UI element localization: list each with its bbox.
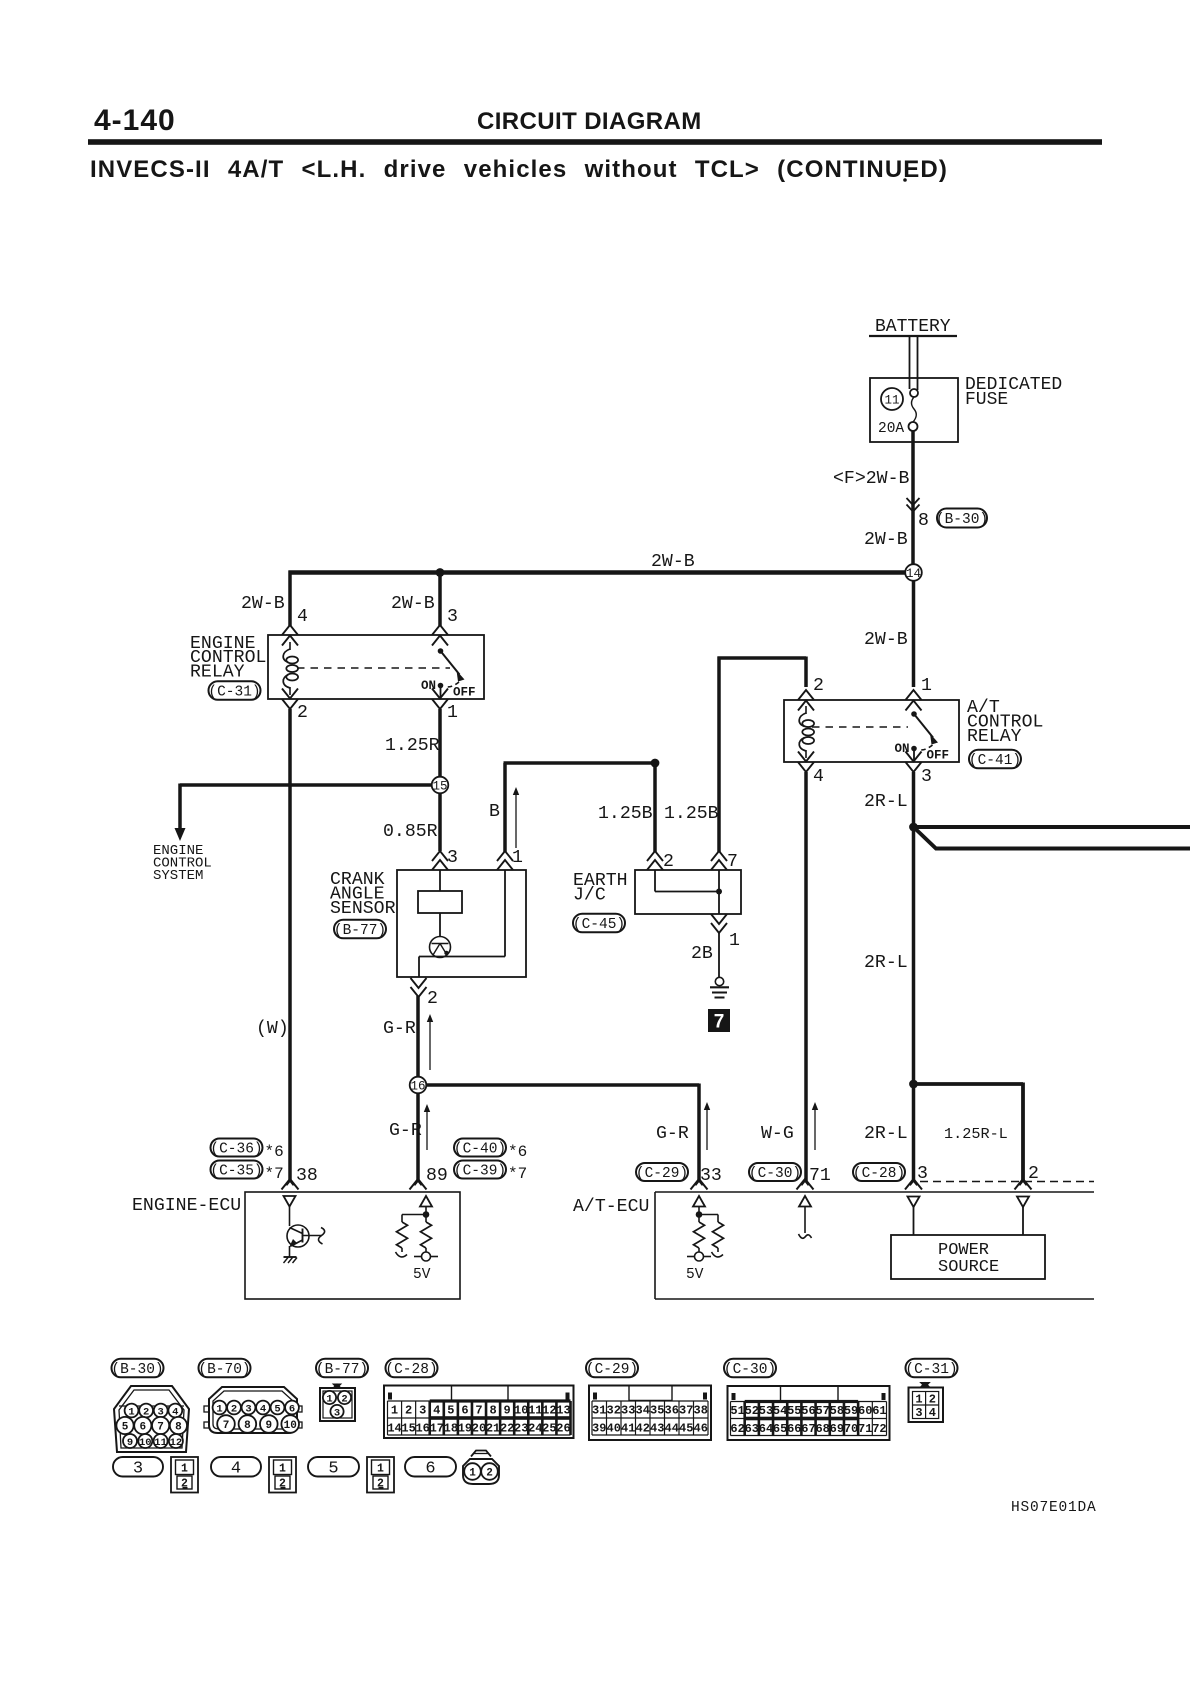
svg-text:6: 6 <box>425 1460 435 1479</box>
svg-text:1: 1 <box>729 931 740 951</box>
pill 4 <box>211 1457 261 1479</box>
svg-text:3: 3 <box>915 1406 922 1420</box>
svg-text:57: 57 <box>815 1404 829 1418</box>
svg-text:2W-B: 2W-B <box>241 594 285 614</box>
svg-text:2: 2 <box>231 1403 237 1415</box>
relay terminal pin2 bottom <box>282 689 298 710</box>
label (C-31) <box>208 681 260 700</box>
title INVECS-II <box>90 156 948 183</box>
wire 2R-L branch right top <box>911 825 1190 829</box>
relay terminal pin3 top <box>432 625 448 646</box>
svg-text:1: 1 <box>128 1406 134 1418</box>
label (C-45) <box>573 914 625 933</box>
label (C-40) *6 <box>454 1139 527 1162</box>
svg-text:7: 7 <box>157 1421 164 1433</box>
svg-text:44: 44 <box>665 1422 679 1436</box>
svg-text:1.25R-L: 1.25R-L <box>944 1125 1008 1143</box>
svg-text:2W-B: 2W-B <box>651 552 695 572</box>
wire pin1 to node 15 (1.25R) <box>438 709 442 778</box>
dashed line C-28 pins <box>920 1181 1094 1183</box>
label ENGINE CONTROL SYSTEM <box>153 843 212 884</box>
wire node16 down to pin 89 <box>416 1093 420 1182</box>
svg-text:1: 1 <box>469 1467 476 1479</box>
svg-text:RELAY: RELAY <box>967 727 1022 747</box>
ECU transistor Q <box>287 1225 325 1248</box>
svg-text:17: 17 <box>430 1422 444 1436</box>
earth JC terminal pin2 <box>647 851 663 870</box>
svg-text:(C-45): (C-45) <box>573 917 625 933</box>
svg-text:4-140: 4-140 <box>94 104 176 137</box>
svg-text:22: 22 <box>500 1422 514 1436</box>
wire node15 down (0.85R) <box>438 793 442 852</box>
svg-text:3: 3 <box>447 848 458 868</box>
engine control relay box <box>268 635 484 699</box>
svg-text:(B-70): (B-70) <box>198 1362 250 1378</box>
connector C-31 shell <box>909 1383 944 1423</box>
svg-text:3: 3 <box>334 1407 340 1419</box>
wire node14 down to A/T relay pin1 (2W-B) <box>912 580 916 687</box>
svg-text:2W-B: 2W-B <box>391 594 435 614</box>
svg-text:38: 38 <box>296 1166 318 1186</box>
arrow G-R at pin33 <box>704 1102 710 1150</box>
label (C-30) <box>749 1163 801 1182</box>
svg-text:(C-31): (C-31) <box>208 685 260 701</box>
ENGINE-ECU box <box>245 1192 460 1299</box>
svg-text:A/T-ECU: A/T-ECU <box>573 1197 649 1217</box>
wire node15 left to engine control system <box>180 783 433 787</box>
svg-text:2: 2 <box>486 1467 493 1479</box>
svg-text:6: 6 <box>289 1403 295 1415</box>
svg-text:64: 64 <box>759 1422 773 1436</box>
ECU pin38 triangle <box>284 1196 296 1207</box>
label (C-29) bottom <box>586 1359 638 1378</box>
svg-text:14: 14 <box>906 567 921 581</box>
svg-text:4: 4 <box>297 607 308 627</box>
label (C-35) *7 <box>210 1161 283 1184</box>
connector oval 1-2 <box>463 1451 499 1485</box>
svg-text:52: 52 <box>745 1404 759 1418</box>
svg-text:2: 2 <box>377 1478 384 1491</box>
label (B-30) bottom <box>111 1359 163 1378</box>
wire branch 1.25R-L <box>912 1083 1024 1182</box>
wire 1.25B pin7 vertical <box>717 657 721 853</box>
pill 5 <box>308 1457 359 1479</box>
svg-text:(C-35): (C-35) <box>210 1164 262 1180</box>
arrow G-R upper <box>427 1014 433 1070</box>
svg-text:7: 7 <box>727 852 738 872</box>
svg-text:89: 89 <box>426 1166 448 1186</box>
svg-text:9: 9 <box>265 1420 272 1432</box>
label (B-77) <box>334 920 386 939</box>
svg-text:1.25B: 1.25B <box>664 804 719 824</box>
label (C-28) <box>853 1163 905 1182</box>
wire bus drop left (2W-B) <box>288 571 292 627</box>
svg-text:65: 65 <box>773 1422 787 1436</box>
sensor terminal pin2 <box>411 978 427 997</box>
sensor inner wire pin3 to block <box>439 870 441 891</box>
svg-text:60: 60 <box>858 1404 872 1418</box>
connector B-77 shell <box>320 1384 355 1421</box>
A/T relay switch <box>911 711 938 761</box>
svg-text:14: 14 <box>387 1422 401 1436</box>
svg-text:RELAY: RELAY <box>190 663 245 683</box>
svg-text:15: 15 <box>401 1422 415 1436</box>
svg-text:5V: 5V <box>413 1267 431 1283</box>
svg-text:1: 1 <box>512 848 523 868</box>
svg-text:4: 4 <box>929 1406 936 1420</box>
svg-text:41: 41 <box>621 1422 635 1436</box>
A/T relay terminal pin4 <box>798 752 814 773</box>
ATECU pin33 triangle <box>693 1196 705 1207</box>
junction 2R-L to 1.25R-L <box>909 1080 918 1089</box>
svg-text:1: 1 <box>915 1393 922 1407</box>
svg-text:2R-L: 2R-L <box>864 792 908 812</box>
svg-text:4: 4 <box>260 1403 266 1415</box>
engine control relay coil <box>283 642 298 695</box>
ATECU pin3 triangle <box>908 1197 920 1208</box>
svg-text:2: 2 <box>297 703 308 723</box>
svg-text:32: 32 <box>607 1404 621 1418</box>
svg-text:4: 4 <box>433 1404 440 1418</box>
earth JC inner wires <box>655 870 719 914</box>
svg-text:24: 24 <box>528 1422 542 1436</box>
sensor inner block <box>418 891 462 913</box>
svg-text:10: 10 <box>139 1437 152 1449</box>
wire 2B to ground <box>718 932 720 977</box>
svg-text:(C-36): (C-36) <box>210 1142 262 1158</box>
svg-text:72: 72 <box>872 1422 886 1436</box>
svg-text:9: 9 <box>504 1404 511 1418</box>
ATECU terminal pin2 <box>1015 1179 1032 1190</box>
svg-text:CIRCUIT DIAGRAM: CIRCUIT DIAGRAM <box>477 108 702 135</box>
svg-text:2B: 2B <box>691 944 713 964</box>
svg-text:16: 16 <box>415 1422 429 1436</box>
svg-text:3: 3 <box>419 1404 426 1418</box>
svg-text:56: 56 <box>801 1404 815 1418</box>
node 14 <box>905 564 922 581</box>
svg-text:1.25B: 1.25B <box>598 804 653 824</box>
svg-text:3: 3 <box>447 607 458 627</box>
svg-text:61: 61 <box>872 1404 886 1418</box>
svg-text:*7: *7 <box>508 1165 527 1183</box>
svg-text:45: 45 <box>679 1422 693 1436</box>
svg-text:13: 13 <box>556 1404 570 1418</box>
svg-text:(B-77): (B-77) <box>316 1362 368 1378</box>
earth JC inner junction <box>716 889 722 895</box>
svg-text:12: 12 <box>170 1437 183 1449</box>
svg-text:69: 69 <box>830 1422 844 1436</box>
svg-text:SOURCE: SOURCE <box>938 1258 999 1277</box>
svg-text:HS07E01DA: HS07E01DA <box>1011 1500 1097 1516</box>
label (B-77) bottom <box>316 1359 368 1378</box>
svg-text:OFF: OFF <box>453 686 476 700</box>
svg-text:18: 18 <box>444 1422 458 1436</box>
svg-text:6: 6 <box>461 1404 468 1418</box>
arrow G-R lower <box>424 1104 430 1150</box>
svg-text:(C-39): (C-39) <box>454 1164 506 1180</box>
svg-text:46: 46 <box>694 1422 708 1436</box>
svg-text:11: 11 <box>528 1404 542 1418</box>
svg-text:1: 1 <box>921 676 932 696</box>
svg-text:(B-30): (B-30) <box>936 512 988 528</box>
ECU pin89 triangle <box>420 1196 432 1207</box>
svg-text:55: 55 <box>787 1404 801 1418</box>
ATECU pin33 net <box>696 1207 718 1223</box>
connector C-28 shell <box>384 1386 574 1439</box>
svg-text:16: 16 <box>410 1079 425 1093</box>
svg-text:G-R: G-R <box>383 1019 416 1039</box>
crank angle sensor box <box>397 870 526 977</box>
ECU pin89 net <box>402 1207 429 1223</box>
ATECU resistor left 5V <box>687 1222 711 1261</box>
junction on bus at x440 <box>436 568 445 577</box>
connector 1-2 b <box>269 1457 296 1493</box>
ground symbol <box>710 977 729 997</box>
svg-text:3: 3 <box>245 1403 251 1415</box>
ATECU terminal pin3 <box>905 1179 922 1190</box>
connector C-29 shell <box>589 1386 711 1441</box>
svg-text:(C-28): (C-28) <box>853 1166 905 1182</box>
svg-text:BATTERY: BATTERY <box>875 317 951 337</box>
svg-text:12: 12 <box>542 1404 556 1418</box>
ECU terminal pin89 <box>410 1179 427 1190</box>
header CIRCUIT DIAGRAM <box>477 108 702 135</box>
label A/T CONTROL RELAY <box>967 698 1043 747</box>
svg-text:26: 26 <box>556 1422 570 1436</box>
svg-text:(C-41): (C-41) <box>969 753 1021 769</box>
wire node16 right <box>426 1084 700 1182</box>
wire pin2 down (W) long <box>288 709 292 1181</box>
connector 1-2 a <box>171 1457 198 1493</box>
sensor pickup symbol <box>430 937 451 958</box>
earth JC terminal pin1 <box>711 914 727 933</box>
svg-text:2: 2 <box>405 1404 412 1418</box>
svg-text:7: 7 <box>714 1012 725 1033</box>
svg-text:FUSE: FUSE <box>965 390 1008 410</box>
svg-text:62: 62 <box>730 1422 744 1436</box>
svg-text:15: 15 <box>432 779 447 793</box>
svg-text:INVECS-II 4A/T <L.H. drive veh: INVECS-II 4A/T <L.H. drive vehicles with… <box>90 156 948 183</box>
svg-text:8: 8 <box>244 1420 251 1432</box>
sensor inner wire out <box>419 870 505 977</box>
svg-text:8: 8 <box>175 1421 182 1433</box>
svg-text:SYSTEM: SYSTEM <box>153 868 203 884</box>
svg-text:2R-L: 2R-L <box>864 1124 908 1144</box>
svg-text:71: 71 <box>858 1422 872 1436</box>
svg-text:1.25R: 1.25R <box>385 736 440 756</box>
svg-text:(C-29): (C-29) <box>636 1166 688 1182</box>
svg-text:(C-28): (C-28) <box>385 1362 437 1378</box>
svg-text:J/C: J/C <box>573 886 606 906</box>
node 16 <box>410 1077 427 1094</box>
svg-text:2: 2 <box>663 852 674 872</box>
svg-text:<F>2W-B: <F>2W-B <box>833 469 909 489</box>
svg-text:37: 37 <box>679 1404 693 1418</box>
wire 2R-L branch right lower <box>914 827 1190 849</box>
wire pin3 down (2R-L) <box>912 772 916 1181</box>
page number 4-140 <box>94 104 176 137</box>
A/T relay dashed link <box>812 726 908 728</box>
svg-text:6: 6 <box>139 1421 146 1433</box>
arrow W-G <box>812 1102 818 1150</box>
svg-text:1: 1 <box>216 1403 222 1415</box>
svg-text:1: 1 <box>326 1393 332 1405</box>
connector C-30 shell <box>728 1386 890 1440</box>
svg-text:71: 71 <box>809 1166 831 1186</box>
svg-text:54: 54 <box>773 1404 787 1418</box>
svg-text:42: 42 <box>636 1422 650 1436</box>
earth JC terminal pin7 <box>711 851 727 870</box>
svg-text:39: 39 <box>592 1422 606 1436</box>
svg-text:25: 25 <box>542 1422 556 1436</box>
svg-text:3: 3 <box>921 767 932 787</box>
ECU transistor wire <box>289 1207 291 1227</box>
label (C-36) *6 <box>210 1139 283 1162</box>
svg-text:20A: 20A <box>878 421 904 437</box>
wire fuse to node 14 (2W-B) <box>911 431 915 566</box>
svg-text:2: 2 <box>427 989 438 1009</box>
svg-text:ENGINE-ECU: ENGINE-ECU <box>132 1196 241 1216</box>
svg-text:2W-B: 2W-B <box>864 630 908 650</box>
svg-text:G-R: G-R <box>656 1124 689 1144</box>
svg-text:4: 4 <box>813 767 824 787</box>
label (C-31) bottom <box>905 1359 957 1378</box>
ground ref 7 black box <box>708 1009 730 1033</box>
svg-text:53: 53 <box>759 1404 773 1418</box>
sensor inner wire block to pickup <box>439 913 441 937</box>
label (C-41) <box>969 750 1021 769</box>
label DEDICATED FUSE <box>965 375 1062 410</box>
ECU terminal pin38 <box>282 1179 299 1190</box>
A/T control relay box <box>784 700 959 762</box>
svg-text:8: 8 <box>918 511 929 531</box>
ECU transistor emitter to chassis ground <box>284 1246 298 1263</box>
svg-text:*6: *6 <box>265 1143 284 1161</box>
wire sensor pin2 to node16 (G-R) <box>416 996 420 1077</box>
label (C-29) <box>636 1163 688 1182</box>
svg-text:51: 51 <box>730 1404 744 1418</box>
svg-text:1: 1 <box>391 1404 398 1418</box>
earth JC box <box>635 870 741 914</box>
svg-text:(C-40): (C-40) <box>454 1142 506 1158</box>
svg-text:58: 58 <box>830 1404 844 1418</box>
wire 2W-B bus <box>289 570 907 574</box>
svg-text:2R-L: 2R-L <box>864 953 908 973</box>
svg-text:66: 66 <box>787 1422 801 1436</box>
svg-text:8: 8 <box>489 1404 496 1418</box>
svg-text:40: 40 <box>607 1422 621 1436</box>
node 15 <box>432 777 449 794</box>
ATECU pin71 triangle <box>799 1196 811 1207</box>
svg-text:38: 38 <box>694 1404 708 1418</box>
A/T relay terminal pin2 <box>798 690 814 711</box>
arrow to engine control system <box>175 784 186 842</box>
svg-text:5: 5 <box>328 1460 338 1479</box>
relay terminal pin1 bottom <box>432 689 448 710</box>
svg-text:23: 23 <box>514 1422 528 1436</box>
ECU resistor right 5V <box>414 1222 438 1261</box>
battery label <box>869 317 957 337</box>
wire pin2 to power source <box>1022 1207 1024 1235</box>
svg-text:2: 2 <box>181 1478 188 1491</box>
svg-text:7: 7 <box>223 1420 230 1432</box>
wire bus drop mid (2W-B) <box>438 574 442 626</box>
A/T relay terminal pin1 <box>906 690 922 711</box>
svg-text:19: 19 <box>458 1422 472 1436</box>
svg-text:21: 21 <box>486 1422 500 1436</box>
header rule <box>88 139 1102 145</box>
svg-text:20: 20 <box>472 1422 486 1436</box>
label ENGINE CONTROL RELAY <box>190 634 266 683</box>
svg-text:2: 2 <box>341 1393 347 1405</box>
svg-text:2W-B: 2W-B <box>864 530 908 550</box>
sensor terminal pin3 <box>432 851 448 870</box>
svg-text:5: 5 <box>122 1421 129 1433</box>
relay switch <box>438 648 465 698</box>
svg-text:10: 10 <box>514 1404 528 1418</box>
svg-text:(C-30): (C-30) <box>724 1362 776 1378</box>
svg-text:34: 34 <box>636 1404 650 1418</box>
label EARTH J/C <box>573 871 628 906</box>
svg-text:5: 5 <box>274 1403 280 1415</box>
label (B-70) bottom <box>198 1359 250 1378</box>
svg-text:67: 67 <box>801 1422 815 1436</box>
ECU resistor left <box>396 1222 408 1257</box>
junction 2R-L branches <box>909 823 918 832</box>
svg-text:11: 11 <box>884 394 899 408</box>
svg-text:36: 36 <box>665 1404 679 1418</box>
arrow on wire 2W-B <box>907 498 920 512</box>
svg-text:63: 63 <box>745 1422 759 1436</box>
svg-text:7: 7 <box>475 1404 482 1418</box>
svg-text:3: 3 <box>133 1460 143 1479</box>
svg-text:B: B <box>489 802 500 822</box>
pill 6 <box>405 1457 456 1479</box>
connector B-70 shell <box>204 1387 302 1433</box>
wire B sensor pin1 up <box>504 763 654 852</box>
svg-text:*7: *7 <box>265 1165 284 1183</box>
svg-text:10: 10 <box>284 1420 297 1432</box>
label (C-28) bottom <box>385 1359 437 1378</box>
svg-text:5V: 5V <box>686 1267 704 1283</box>
ATECU pin71 wire <box>799 1207 812 1239</box>
A/T relay coil <box>799 706 814 758</box>
svg-text:33: 33 <box>621 1404 635 1418</box>
POWER SOURCE box <box>891 1235 1045 1279</box>
svg-text:59: 59 <box>844 1404 858 1418</box>
junction B/1.25B corner <box>651 759 660 768</box>
svg-text:4: 4 <box>231 1460 241 1479</box>
ATECU resistor right <box>712 1222 724 1257</box>
connector 1-2 c <box>367 1457 394 1493</box>
wire 1.25B top corner to relay pin2 <box>718 657 807 688</box>
wire 1.25B down to earth JC pin2 <box>653 762 657 853</box>
svg-text:(B-30): (B-30) <box>111 1362 163 1378</box>
svg-text:SENSOR: SENSOR <box>330 899 396 919</box>
relay terminal pin4 top <box>282 625 298 646</box>
ATECU terminal pin33 <box>691 1179 708 1190</box>
svg-text:1: 1 <box>279 1463 286 1476</box>
wire pin4 down (W-G) <box>804 772 808 1181</box>
A/T-ECU box <box>655 1192 1094 1299</box>
arrow B wire <box>513 787 519 848</box>
label 8 (B-30) <box>918 509 988 532</box>
svg-text:(C-31): (C-31) <box>905 1362 957 1378</box>
svg-text:(C-29): (C-29) <box>586 1362 638 1378</box>
svg-text:5: 5 <box>447 1404 454 1418</box>
svg-text:2: 2 <box>929 1393 936 1407</box>
label (C-30) bottom <box>724 1359 776 1378</box>
